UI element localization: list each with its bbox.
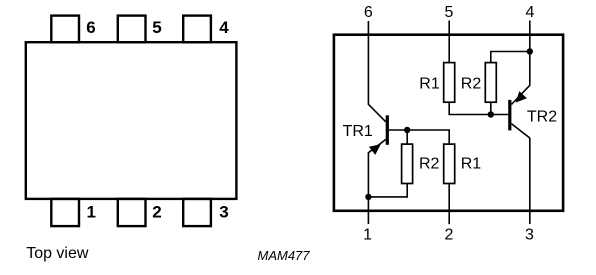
- svg-text:6: 6: [86, 18, 95, 37]
- transistor TR2 base bar: [508, 100, 511, 130]
- svg-text:5: 5: [444, 4, 453, 21]
- svg-text:R1: R1: [419, 76, 440, 93]
- wire: upper R2 bottom stub: [490, 102, 492, 114]
- package pin 2 pad: [118, 199, 146, 226]
- TR1 collector lead: [368, 104, 385, 122]
- TR1 emitter lead: [368, 139, 386, 153]
- package pin 4 pad: [183, 16, 211, 43]
- svg-text:3: 3: [219, 203, 228, 222]
- svg-text:3: 3: [525, 227, 534, 244]
- resistor R2 (lower): [402, 144, 413, 183]
- svg-text:6: 6: [364, 4, 373, 21]
- svg-text:2: 2: [152, 203, 161, 222]
- pin 5 lead wire: [448, 21, 450, 63]
- svg-text:Top view: Top view: [26, 245, 89, 262]
- svg-text:5: 5: [152, 18, 161, 37]
- svg-text:R1: R1: [461, 156, 482, 173]
- node: pin1 / R2 junction: [365, 194, 371, 200]
- package body (top view): [26, 42, 237, 199]
- svg-text:1: 1: [87, 203, 96, 222]
- pin 1 lead wire (TR1 emitter net): [367, 152, 369, 224]
- node: TR1 base / R2 junction: [404, 127, 410, 133]
- TR1 base wire to bottom resistors: [389, 130, 449, 144]
- svg-text:4: 4: [526, 4, 535, 21]
- resistor R2 (upper): [485, 63, 496, 103]
- wire: upper R1 bottom to TR2 base: [449, 102, 508, 114]
- svg-text:2: 2: [444, 227, 453, 244]
- node: TR2 base / upper R2 junction: [488, 111, 494, 117]
- transistor TR1 base bar: [386, 115, 389, 145]
- schematic border box: [334, 35, 563, 211]
- svg-text:4: 4: [219, 18, 229, 37]
- package pin 1 pad: [51, 199, 79, 226]
- svg-text:TR2: TR2: [527, 109, 557, 126]
- pin 6 lead wire: [367, 21, 369, 105]
- TR1 emitter arrow (PNP, points to base): [369, 144, 381, 155]
- TR2 collector lead: [511, 124, 529, 138]
- package pin 5 pad: [118, 16, 146, 43]
- pin 3 lead wire (TR2 collector net): [529, 138, 531, 224]
- svg-text:MAM477: MAM477: [258, 248, 311, 263]
- TR2 emitter arrow (PNP, points to base): [516, 91, 527, 103]
- pin 2 lead wire: [448, 183, 450, 224]
- svg-text:R2: R2: [419, 156, 440, 173]
- wire: junction down to lower R2: [406, 130, 408, 144]
- svg-text:1: 1: [363, 227, 372, 244]
- svg-text:R2: R2: [461, 76, 482, 93]
- package pin 6 pad: [51, 16, 79, 43]
- wire: upper R2 top to pin 4 line: [491, 52, 530, 63]
- resistor R1 (upper): [444, 63, 455, 103]
- package pin 3 pad: [183, 199, 211, 226]
- resistor R1 (lower): [444, 144, 455, 183]
- wire: lower R2 bottom to pin1 line: [368, 184, 407, 197]
- TR2 emitter lead: [511, 85, 529, 104]
- pin 4 lead wire: [529, 21, 531, 86]
- node: pin 4 / R2 junction: [527, 48, 533, 54]
- svg-text:TR1: TR1: [343, 123, 373, 140]
